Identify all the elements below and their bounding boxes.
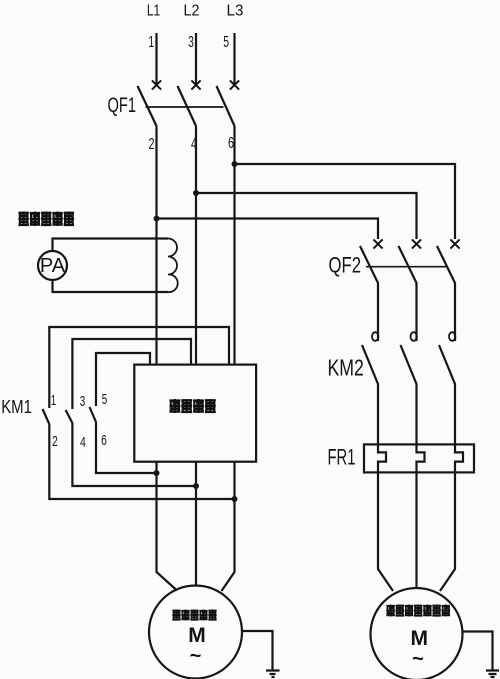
svg-text:L3: L3 xyxy=(227,2,244,19)
svg-text:2: 2 xyxy=(52,432,58,450)
svg-text:5: 5 xyxy=(102,391,107,408)
svg-text:KM1: KM1 xyxy=(1,397,32,418)
svg-text:1: 1 xyxy=(148,33,154,51)
svg-text:L2: L2 xyxy=(183,2,199,20)
svg-text:L1: L1 xyxy=(147,1,160,19)
svg-text:4: 4 xyxy=(191,135,197,153)
svg-text:QF2: QF2 xyxy=(329,253,361,278)
svg-text:~: ~ xyxy=(190,645,202,667)
svg-text:QF1: QF1 xyxy=(108,93,137,116)
svg-text:3: 3 xyxy=(80,393,85,410)
svg-text:PA: PA xyxy=(40,255,66,277)
svg-text:3: 3 xyxy=(188,33,194,51)
svg-text:6: 6 xyxy=(101,431,107,449)
svg-text:1: 1 xyxy=(51,392,56,409)
svg-text:6: 6 xyxy=(228,134,234,152)
svg-text:FR1: FR1 xyxy=(328,445,356,470)
svg-text:M: M xyxy=(188,624,206,647)
svg-text:5: 5 xyxy=(223,33,229,51)
svg-text:KM2: KM2 xyxy=(328,355,364,381)
svg-text:M: M xyxy=(411,627,429,650)
svg-text:~: ~ xyxy=(412,648,424,670)
svg-text:4: 4 xyxy=(80,433,86,451)
svg-text:2: 2 xyxy=(148,135,154,153)
